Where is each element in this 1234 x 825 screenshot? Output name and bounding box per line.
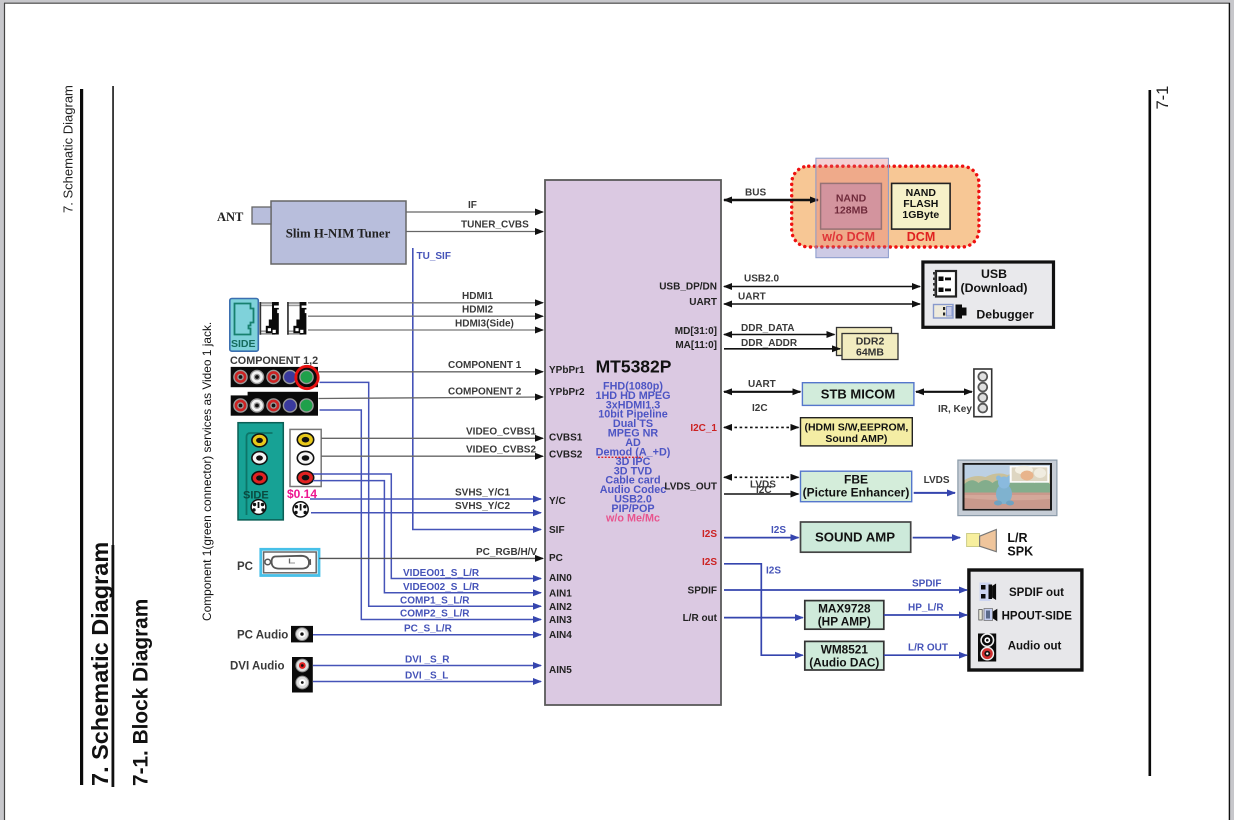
wire COMP2_S_L/R tap <box>320 410 542 620</box>
svg-text:UART: UART <box>689 297 717 308</box>
svg-text:DDR_DATA: DDR_DATA <box>741 323 795 334</box>
wire VIDEO02_S_L/R tap <box>313 481 541 593</box>
svg-text:I2S: I2S <box>702 557 717 568</box>
svg-text:PC Audio: PC Audio <box>237 630 288 642</box>
svg-text:DVI Audio: DVI Audio <box>230 661 285 673</box>
svg-text:DVI _S_L: DVI _S_L <box>405 670 448 681</box>
svg-text:LVDS_OUT: LVDS_OUT <box>664 482 717 493</box>
IR key connector <box>974 369 992 417</box>
svg-text:7. Schematic Diagram: 7. Schematic Diagram <box>87 542 113 786</box>
svg-text:SVHS_Y/C1: SVHS_Y/C1 <box>455 487 510 498</box>
svg-text:7-1. Block Diagram: 7-1. Block Diagram <box>130 599 153 786</box>
svg-text:MT5382P: MT5382P <box>596 356 672 376</box>
svg-text:STB MICOM: STB MICOM <box>821 387 895 402</box>
svg-text:AIN0: AIN0 <box>549 573 572 584</box>
wire SVHS_Y/C2 <box>311 512 541 514</box>
NAND 128MB box <box>821 183 882 229</box>
svg-text:I2C: I2C <box>756 485 772 496</box>
svg-text:YPbPr2: YPbPr2 <box>549 387 585 398</box>
svg-text:VIDEO_CVBS2: VIDEO_CVBS2 <box>466 445 536 456</box>
wire UART <box>724 303 920 305</box>
PC VGA connector <box>261 549 319 575</box>
wire I2S to WM8521 <box>724 564 803 655</box>
HDMI plug icon 1 <box>260 302 280 335</box>
FBE box <box>801 471 912 502</box>
wire UART (STB) <box>724 391 800 393</box>
AV side connector block (teal) <box>238 423 283 520</box>
svg-text:CVBS2: CVBS2 <box>549 450 583 461</box>
svg-text:SIDE: SIDE <box>231 338 256 350</box>
svg-text:SPDIF: SPDIF <box>688 586 717 597</box>
svg-text:BUS: BUS <box>745 188 766 199</box>
svg-text:(Audio DAC): (Audio DAC) <box>809 655 879 669</box>
svg-text:ANT: ANT <box>217 210 244 224</box>
SPDIF out icon <box>980 583 997 602</box>
wire PC_RGB/H/V <box>319 557 543 559</box>
translucent highlight strip over NAND <box>816 158 889 247</box>
svg-text:TU_SIF: TU_SIF <box>417 251 451 262</box>
svg-text:MAX9728: MAX9728 <box>818 602 871 616</box>
DDR2 64MB stacked boxes <box>837 328 899 360</box>
wire VIDEO01_S_L/R tap <box>313 474 541 579</box>
footer rule <box>1149 90 1152 776</box>
wire I2C (FBE) <box>724 493 799 495</box>
svg-text:YPbPr1: YPbPr1 <box>549 365 585 376</box>
svg-text:Debugger: Debugger <box>976 307 1034 321</box>
svg-text:L/R out: L/R out <box>683 613 718 624</box>
wire TUNER_CVBS <box>406 231 543 233</box>
svg-text:AIN4: AIN4 <box>549 630 572 641</box>
svg-text:VIDEO_CVBS1: VIDEO_CVBS1 <box>466 427 536 438</box>
HDMI side connector (teal) <box>230 299 258 352</box>
wire SPDIF <box>724 589 967 591</box>
svg-text:SOUND AMP: SOUND AMP <box>815 530 895 545</box>
section heading underline <box>112 545 115 787</box>
svg-text:HP_L/R: HP_L/R <box>908 603 944 614</box>
red highlight ring on green jack <box>296 366 318 388</box>
svg-text:1GByte: 1GByte <box>902 209 939 221</box>
svg-text:Audio out: Audio out <box>1008 641 1062 653</box>
wire DVI _S_L <box>313 681 541 683</box>
svg-text:COMP2_S_L/R: COMP2_S_L/R <box>400 609 470 620</box>
svg-text:HPOUT-SIDE: HPOUT-SIDE <box>1002 611 1073 623</box>
svg-text:w/o Me/Mc: w/o Me/Mc <box>605 513 660 525</box>
wire HDMI1 <box>308 302 543 304</box>
svg-text:USB2.0: USB2.0 <box>744 274 779 285</box>
speaker icon <box>967 530 997 552</box>
audio output box <box>969 570 1082 670</box>
wire L/R OUT <box>884 654 967 656</box>
svg-text:I2C: I2C <box>752 403 768 414</box>
wire COMPONENT 1 <box>319 371 544 373</box>
component jack bar 2 <box>231 392 318 416</box>
wire VIDEO_CVBS2 <box>321 455 543 457</box>
svg-text:MD[31:0]: MD[31:0] <box>675 326 717 337</box>
svg-text:IR, Key: IR, Key <box>938 404 972 415</box>
svg-text:(HDMI S/W,EEPROM,: (HDMI S/W,EEPROM, <box>804 422 908 434</box>
PC Audio jack <box>291 626 313 643</box>
svg-text:COMP1_S_L/R: COMP1_S_L/R <box>400 595 470 606</box>
svg-text:VIDEO02_S_L/R: VIDEO02_S_L/R <box>403 582 480 593</box>
svg-text:MA[11:0]: MA[11:0] <box>675 340 717 351</box>
HPOUT-SIDE icon <box>979 609 998 622</box>
S-video jack icon <box>293 502 308 517</box>
WM8521 box <box>805 641 884 670</box>
svg-text:Slim H-NIM Tuner: Slim H-NIM Tuner <box>286 227 391 241</box>
wire SVHS_Y/C1 <box>310 498 541 500</box>
svg-text:Sound AMP): Sound AMP) <box>825 433 887 445</box>
svg-text:USB: USB <box>981 267 1007 281</box>
HDMI S/W EEPROM box <box>801 418 913 446</box>
component jack bar 1 <box>231 367 318 387</box>
svg-text:L/R: L/R <box>1007 531 1027 545</box>
svg-text:UART: UART <box>748 379 776 390</box>
MAX9728 box <box>805 601 884 630</box>
svg-text:HDMI3(Side): HDMI3(Side) <box>455 319 514 330</box>
svg-text:SIF: SIF <box>549 525 565 536</box>
svg-text:AIN2: AIN2 <box>549 602 572 613</box>
svg-text:IF: IF <box>468 200 477 211</box>
wire COMP1_S_L/R tap <box>320 382 542 606</box>
svg-text:WM8521: WM8521 <box>821 642 869 656</box>
svg-text:L/R OUT: L/R OUT <box>908 643 948 654</box>
AV rear jacks (white box) <box>290 429 321 486</box>
svg-text:VIDEO01_S_L/R: VIDEO01_S_L/R <box>403 568 480 579</box>
wire I2S to sound amp <box>724 537 799 539</box>
svg-text:DVI _S_R: DVI _S_R <box>405 654 450 665</box>
svg-text:7-1: 7-1 <box>1154 86 1172 110</box>
wire I2C_1 dotted <box>724 426 799 428</box>
svg-text:64MB: 64MB <box>856 347 884 359</box>
chip right pin labels <box>659 281 717 624</box>
STB MICOM box <box>802 383 914 406</box>
wire BUS <box>724 199 818 201</box>
svg-text:I2S: I2S <box>766 566 781 577</box>
svg-text:UART: UART <box>738 292 766 303</box>
DVI Audio jacks <box>292 657 313 693</box>
wire TU_SIF <box>413 248 541 530</box>
page edge shading <box>0 0 5 820</box>
svg-text:AIN5: AIN5 <box>549 665 572 676</box>
wire sound amp to speaker <box>913 537 960 539</box>
wire COMPONENT 2 <box>319 397 544 399</box>
wire DVI _S_R <box>313 665 541 667</box>
svg-text:COMPONENT 1: COMPONENT 1 <box>448 360 522 371</box>
svg-text:(Download): (Download) <box>961 281 1028 295</box>
svg-text:DCM: DCM <box>907 230 935 244</box>
wire HDMI3(Side) <box>308 329 543 331</box>
SOUND AMP box <box>801 522 911 552</box>
svg-text:DDR_ADDR: DDR_ADDR <box>741 338 798 349</box>
svg-text:CVBS1: CVBS1 <box>549 433 583 444</box>
USB Debugger box <box>923 262 1054 327</box>
svg-text:HDMI2: HDMI2 <box>462 305 494 316</box>
svg-text:SPK: SPK <box>1007 544 1033 558</box>
wire LVDS dotted <box>724 476 799 478</box>
wire VIDEO_CVBS1 <box>321 437 543 439</box>
wire L/R out to MAX9728 <box>724 617 803 619</box>
svg-text:TUNER_CVBS: TUNER_CVBS <box>461 220 529 231</box>
svg-text:HDMI1: HDMI1 <box>462 291 494 302</box>
svg-text:COMPONENT 2: COMPONENT 2 <box>448 387 522 398</box>
svg-text:AIN3: AIN3 <box>549 615 572 626</box>
svg-text:(HP AMP): (HP AMP) <box>818 615 871 629</box>
chip U1 MT5382P <box>545 180 721 705</box>
svg-text:AIN1: AIN1 <box>549 588 572 599</box>
svg-text:SPDIF: SPDIF <box>912 579 941 590</box>
NAND DCM group (dotted outline) <box>792 166 979 247</box>
svg-text:FBE: FBE <box>844 473 868 487</box>
wire DDR_DATA <box>724 334 835 336</box>
wire DDR_ADDR <box>724 348 840 350</box>
svg-text:PC: PC <box>237 561 253 573</box>
svg-text:(Picture Enhancer): (Picture Enhancer) <box>803 486 910 500</box>
svg-text:Y/C: Y/C <box>549 496 566 507</box>
page rule (thin, full height) <box>112 86 114 786</box>
ANT stub connector <box>252 207 271 224</box>
svg-text:I2C_1: I2C_1 <box>690 423 717 434</box>
wire IR,Key <box>916 391 972 393</box>
svg-text:SPDIF out: SPDIF out <box>1009 587 1064 599</box>
wire LVDS to TV <box>914 492 955 494</box>
NAND FLASH 1GByte box <box>892 183 951 229</box>
svg-text:PC_RGB/H/V: PC_RGB/H/V <box>476 547 537 558</box>
HDMI plug icon 2 <box>287 302 307 335</box>
tuner block: Slim H-NIM Tuner <box>271 201 406 264</box>
svg-text:I2S: I2S <box>771 525 786 536</box>
svg-text:SVHS_Y/C2: SVHS_Y/C2 <box>455 501 510 512</box>
svg-text:PC: PC <box>549 553 563 564</box>
wire HDMI2 <box>308 315 543 317</box>
header underline (vertical thick rule) <box>80 89 83 785</box>
wire PC_S_L/R <box>313 634 541 636</box>
wire HP_L/R <box>884 614 967 616</box>
svg-text:Component 1(green connector) s: Component 1(green connector) services as… <box>200 322 214 621</box>
svg-text:PC_S_L/R: PC_S_L/R <box>404 624 453 635</box>
Audio out RCA icons <box>978 634 996 662</box>
svg-text:7. Schematic Diagram: 7. Schematic Diagram <box>61 85 76 213</box>
TV panel image <box>958 460 1057 515</box>
svg-text:I2S: I2S <box>702 529 717 540</box>
chip left pin labels <box>549 365 585 676</box>
svg-text:USB_DP/DN: USB_DP/DN <box>659 281 717 292</box>
wire IF <box>406 211 543 213</box>
wire USB2.0 <box>724 286 920 288</box>
svg-text:LVDS: LVDS <box>924 475 950 486</box>
